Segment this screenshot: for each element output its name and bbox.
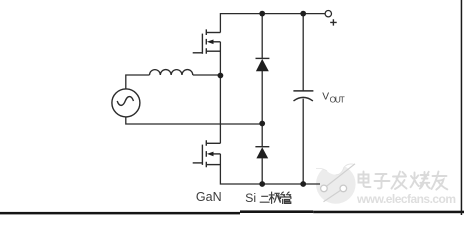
svg-text:OUT: OUT	[330, 96, 345, 105]
svg-text:V: V	[322, 91, 329, 102]
svg-text:Si: Si	[245, 191, 256, 205]
svg-text:GaN: GaN	[196, 190, 222, 204]
svg-text:www.elecfans.com: www.elecfans.com	[356, 192, 456, 206]
